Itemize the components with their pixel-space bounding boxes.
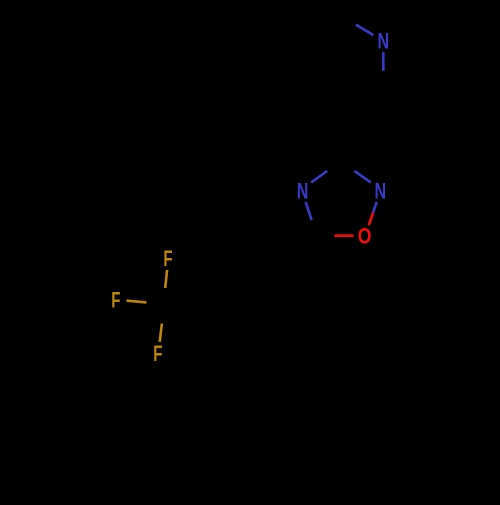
bond N4-C3 (oxadiazole, half near N4) — [311, 171, 327, 182]
bond N4-C5 (oxadiazole, half near N4) — [306, 202, 312, 220]
svg-text:N: N — [378, 29, 390, 54]
bond F(left)-C7 (half near F) — [127, 301, 147, 303]
svg-text:F: F — [163, 246, 172, 271]
bond O1-C5 (half near O) — [335, 234, 354, 237]
bond F(bottom)-C7 (half near F) — [160, 324, 162, 342]
svg-text:O: O — [358, 224, 372, 249]
bond N2-C3 (oxadiazole, half near N2) — [354, 171, 370, 183]
bond N2-O1 red half — [369, 213, 373, 226]
bond N2-O1 blue half — [373, 202, 377, 213]
svg-text:N: N — [297, 179, 309, 204]
bond N1-C2 (pyridine, half near N) — [382, 52, 385, 71]
bond N1-C6 (pyridine, half near N) — [356, 25, 374, 35]
svg-text:N: N — [375, 179, 387, 204]
svg-text:F: F — [153, 341, 162, 366]
bond F(top)-C7 (half near F) — [165, 270, 167, 288]
svg-text:F: F — [111, 288, 120, 313]
